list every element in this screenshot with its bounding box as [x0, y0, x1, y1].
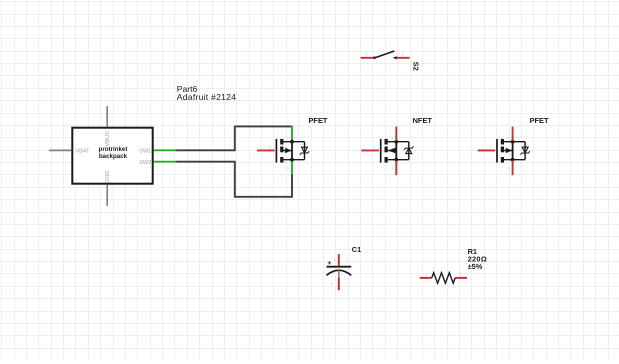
svg-text:1: 1 — [366, 53, 368, 57]
svg-text:2: 2 — [391, 137, 393, 141]
svg-text:2: 2 — [508, 137, 510, 141]
svg-text:2: 2 — [331, 282, 333, 286]
svg-text:1: 1 — [373, 146, 375, 150]
svg-text:SW2: SW2 — [139, 160, 151, 166]
svg-text:3: 3 — [287, 166, 289, 170]
svg-text:VBUS: VBUS — [105, 131, 111, 147]
svg-text:±5%: ±5% — [468, 262, 483, 271]
svg-text:GND: GND — [105, 171, 111, 183]
svg-text:2: 2 — [287, 137, 289, 141]
svg-text:VBAT: VBAT — [75, 148, 90, 154]
svg-text:1: 1 — [334, 257, 336, 261]
svg-text:S2: S2 — [412, 62, 421, 71]
svg-text:Adafruit #2124: Adafruit #2124 — [177, 92, 236, 102]
svg-text:3: 3 — [508, 166, 510, 170]
svg-text:1: 1 — [269, 146, 271, 150]
svg-text:PFET: PFET — [309, 116, 328, 125]
svg-text:C1: C1 — [352, 245, 361, 254]
svg-text:backpack: backpack — [99, 153, 128, 160]
svg-text:1: 1 — [425, 273, 427, 277]
svg-text:SW1: SW1 — [139, 148, 151, 154]
svg-text:2: 2 — [402, 53, 404, 57]
svg-text:2: 2 — [459, 273, 461, 277]
svg-text:NFET: NFET — [413, 116, 433, 125]
svg-text:1: 1 — [489, 146, 491, 150]
svg-text:PFET: PFET — [530, 116, 549, 125]
svg-text:3: 3 — [391, 166, 393, 170]
